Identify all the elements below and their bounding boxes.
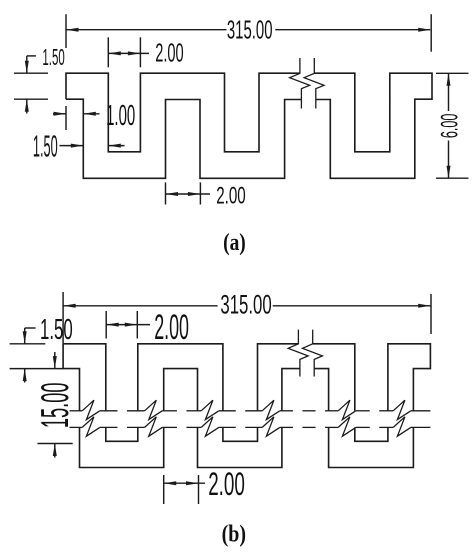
svg-text:2.00: 2.00 — [154, 307, 189, 347]
svg-text:2.00: 2.00 — [155, 39, 184, 67]
svg-text:(b): (b) — [222, 522, 246, 548]
svg-text:315.00: 315.00 — [220, 290, 271, 320]
svg-text:1.50: 1.50 — [42, 44, 64, 70]
svg-text:2.00: 2.00 — [216, 183, 246, 210]
svg-text:(a): (a) — [223, 230, 246, 256]
svg-text:15.00: 15.00 — [33, 383, 77, 429]
svg-text:1.50: 1.50 — [33, 129, 58, 163]
svg-text:2.00: 2.00 — [208, 466, 245, 502]
svg-text:1.50: 1.50 — [40, 314, 73, 346]
svg-text:1.00: 1.00 — [106, 100, 135, 132]
svg-text:6.00: 6.00 — [437, 114, 464, 139]
svg-text:315.00: 315.00 — [227, 17, 273, 45]
